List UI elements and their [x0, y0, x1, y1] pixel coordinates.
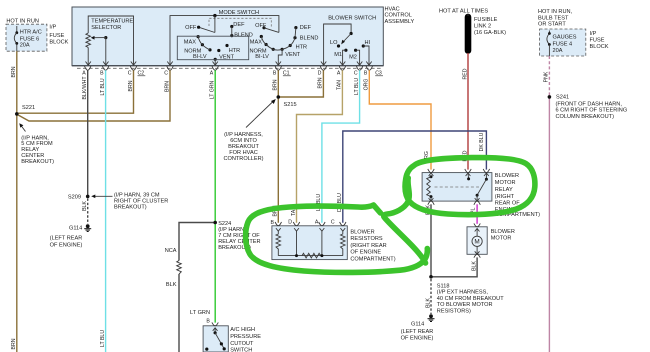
temperature selector box — [88, 16, 133, 65]
svg-text:DEF: DEF — [300, 25, 312, 31]
pin arrows C2: A B C — [86, 62, 137, 66]
mode switch pole1 node on top edge — [213, 14, 216, 17]
wire BRN C1 pin B to S215 to blower resistors pin B — [277, 70, 279, 223]
svg-text:CONTROLLER): CONTROLLER) — [223, 156, 263, 162]
svg-text:CONTROL: CONTROL — [385, 13, 412, 19]
motor label — [491, 229, 515, 242]
svg-text:(I/P EXT HARNESS,: (I/P EXT HARNESS, — [437, 290, 489, 296]
svg-text:D: D — [288, 220, 292, 226]
blower resistor R1 (left) — [276, 231, 281, 256]
connector id underlines — [138, 75, 384, 77]
svg-text:BRN: BRN — [164, 81, 170, 92]
blower resistor R2 (right) — [341, 231, 346, 256]
svg-text:(RIGHT: (RIGHT — [495, 194, 515, 200]
wire DK BLU relay to resistors pin C — [343, 131, 487, 223]
blower resistors label — [350, 229, 395, 262]
svg-text:C: C — [354, 71, 358, 77]
svg-text:BLEND: BLEND — [234, 33, 253, 39]
relay internal up arrows — [429, 173, 489, 176]
mode switch pole1 BLEND contact — [230, 34, 233, 37]
svg-text:D: D — [318, 71, 322, 77]
IP fuse block (left) dashed box — [6, 24, 47, 51]
svg-text:B: B — [271, 220, 275, 226]
relay label — [495, 173, 540, 218]
svg-text:S221: S221 — [22, 105, 35, 111]
mode switch pole1 common to pin A — [213, 58, 218, 65]
svg-text:RESISTORS: RESISTORS — [350, 236, 382, 242]
wire BLK relay to S118 — [430, 204, 432, 276]
svg-text:HOT IN RUN,: HOT IN RUN, — [538, 9, 573, 15]
svg-text:A: A — [337, 71, 341, 77]
fusible link 2 — [439, 9, 488, 54]
wire BLK blower motor to S118 — [431, 257, 477, 276]
blower resistors D and A internal stubs — [295, 231, 323, 257]
HVAC control assembly box — [72, 7, 383, 66]
svg-text:GAUGES: GAUGES — [553, 35, 577, 41]
svg-text:FUSE: FUSE — [49, 33, 64, 39]
temperature selector wiper — [91, 36, 108, 65]
svg-text:TO BLOWER MOTOR: TO BLOWER MOTOR — [437, 302, 493, 308]
svg-text:NCA: NCA — [165, 248, 177, 254]
IP fuse block (right) dashed box — [540, 29, 586, 56]
svg-text:REAR OF: REAR OF — [495, 200, 520, 206]
mode switch pole1 VENT contact — [217, 49, 220, 52]
wire PNK S241 down to bottom — [548, 97, 550, 352]
wire BLK S209 to G114 (dashed) — [87, 199, 89, 225]
svg-text:BLOWER: BLOWER — [350, 229, 374, 235]
S209 callout arrow — [91, 195, 112, 199]
svg-text:RELAY: RELAY — [495, 187, 513, 193]
HVAC label — [385, 7, 415, 25]
svg-text:S224: S224 — [218, 221, 231, 227]
svg-text:B: B — [273, 71, 277, 77]
wire PNK fuse4 to S241 (dashed) — [548, 56, 550, 97]
pin arrow C1 pin C — [167, 62, 172, 66]
relay coil — [427, 175, 434, 201]
svg-text:LT BLU: LT BLU — [354, 78, 360, 95]
mode switch pole1 HTR contact — [225, 44, 228, 47]
blower resistors pin letters — [271, 220, 335, 227]
svg-text:HI: HI — [365, 40, 371, 46]
svg-text:G114: G114 — [69, 226, 82, 232]
svg-text:CUTOUT: CUTOUT — [230, 341, 254, 347]
svg-text:I/P: I/P — [49, 25, 56, 31]
wire BLK/WHT C2 pin A to S209 — [87, 70, 89, 196]
svg-text:S118: S118 — [437, 284, 450, 290]
S215 callout text — [223, 132, 263, 162]
svg-text:I/P: I/P — [590, 31, 597, 37]
svg-text:S209: S209 — [68, 195, 81, 201]
svg-text:RESISTORS): RESISTORS) — [437, 308, 471, 314]
S215 callout arrow — [246, 99, 276, 128]
svg-text:20A: 20A — [553, 48, 563, 54]
mode switch pole1 OFF blade — [197, 16, 215, 33]
wire LT GRN C1 pin A down to A/C switch — [214, 70, 216, 322]
temperature selector potentiometer — [86, 33, 91, 48]
wire RED fusible link to relay — [467, 53, 469, 170]
temperature selector label — [91, 18, 133, 31]
mode switch pole2 OFF blade — [262, 26, 279, 32]
green annotation loop around blower motor relay — [405, 158, 535, 215]
mode switch pole2 contact arc — [260, 35, 297, 51]
svg-text:FUSE: FUSE — [590, 37, 605, 43]
svg-text:BREAKOUT): BREAKOUT) — [21, 159, 54, 165]
svg-text:HTR A/C: HTR A/C — [20, 30, 42, 36]
mode switch pole1 labels — [184, 22, 253, 60]
svg-text:6 CM RIGHT OF STEERING: 6 CM RIGHT OF STEERING — [556, 108, 628, 114]
svg-text:BRN: BRN — [11, 338, 17, 349]
mode switch pole2 DEF contact — [294, 26, 297, 38]
relay top cups — [428, 169, 490, 173]
S209 callout text — [114, 193, 168, 211]
wire BRN S215 to C3 pin D — [278, 70, 323, 97]
svg-text:VENT: VENT — [285, 52, 301, 58]
svg-text:COLUMN BREAKOUT): COLUMN BREAKOUT) — [556, 114, 615, 120]
svg-text:BLK: BLK — [471, 261, 477, 271]
blower switch HI contact to pin B — [362, 44, 372, 65]
svg-text:M1: M1 — [334, 52, 342, 58]
fuse GAUGES Fuse 4 — [547, 31, 551, 57]
wire LT BLU C2 pin B to bottom — [105, 70, 107, 352]
svg-text:FUSIBLE: FUSIBLE — [474, 17, 498, 23]
svg-text:(LEFT REAR: (LEFT REAR — [50, 236, 83, 242]
svg-text:LT GRN: LT GRN — [190, 310, 210, 316]
svg-text:OR START: OR START — [538, 22, 566, 28]
svg-text:LT GRN: LT GRN — [210, 80, 216, 99]
svg-text:BLK: BLK — [425, 298, 431, 308]
A/C switch label — [230, 327, 261, 352]
green annotation loop around blower resistors — [246, 205, 428, 272]
mode switch outer frame — [170, 16, 279, 66]
svg-text:BLOWER: BLOWER — [491, 229, 515, 235]
svg-text:B: B — [100, 71, 104, 77]
svg-text:BI-LV: BI-LV — [255, 54, 269, 60]
svg-text:FUSE 6: FUSE 6 — [20, 36, 40, 42]
mode switch pole1 DEF contact — [230, 25, 233, 36]
wire TAN C3 pin A to resistors pin D — [297, 70, 343, 223]
svg-text:A/C HIGH: A/C HIGH — [230, 327, 255, 333]
fuse HTR A/C Fuse 6 — [14, 26, 18, 51]
svg-text:C: C — [331, 220, 335, 226]
ground G114 (right) — [428, 314, 435, 321]
splice S118 — [429, 275, 433, 279]
svg-text:A: A — [315, 220, 319, 226]
svg-text:B: B — [364, 71, 368, 77]
svg-text:S241: S241 — [556, 95, 569, 101]
svg-text:PRESSURE: PRESSURE — [230, 334, 261, 340]
S118 callout text — [437, 284, 504, 315]
svg-text:TAN: TAN — [337, 80, 343, 90]
svg-text:COMPARTMENT): COMPARTMENT) — [350, 257, 395, 263]
wire BLK S118 to G114 (dashed) — [430, 279, 432, 314]
svg-text:A: A — [82, 71, 86, 77]
splice S224 — [213, 221, 217, 225]
blower switch labels — [330, 40, 371, 61]
svg-text:40 CM FROM BREAKOUT: 40 CM FROM BREAKOUT — [437, 296, 504, 302]
svg-text:S215: S215 — [284, 102, 297, 108]
svg-text:BLK: BLK — [82, 201, 88, 211]
green annotation connector stroke relay loop to resistor loop — [384, 178, 426, 263]
wire NCA branch from S224 with resistor — [177, 223, 216, 352]
blower switch blade to LO — [341, 34, 351, 45]
wire PPL relay to blower motor — [476, 204, 478, 224]
S221 callout arrow — [19, 123, 25, 131]
svg-text:BLOWER: BLOWER — [495, 173, 519, 179]
svg-text:BRN: BRN — [11, 66, 17, 77]
svg-text:BLK: BLK — [166, 282, 177, 288]
connector dashed line C1 C2 C3 — [77, 67, 383, 69]
svg-text:MOTOR: MOTOR — [491, 236, 512, 242]
svg-text:OF ENGINE): OF ENGINE) — [401, 336, 434, 342]
svg-text:OF ENGINE: OF ENGINE — [350, 250, 381, 256]
svg-text:C: C — [128, 71, 132, 77]
svg-text:A: A — [210, 71, 214, 77]
svg-text:HOT IN RUN: HOT IN RUN — [6, 18, 39, 24]
wire BRN S221 diagonal to C1 pin C — [17, 70, 170, 121]
svg-text:M2: M2 — [349, 54, 357, 60]
svg-text:BI-LV: BI-LV — [193, 54, 207, 60]
svg-text:LT BLU: LT BLU — [100, 330, 106, 347]
blower resistors bottom rail — [278, 255, 343, 257]
svg-text:BLEND: BLEND — [300, 36, 319, 42]
A/C switch internal — [205, 328, 226, 351]
svg-text:B: B — [206, 319, 210, 325]
splice S215 — [277, 95, 281, 99]
relay blade contact — [475, 173, 488, 202]
svg-text:BLOCK: BLOCK — [49, 39, 68, 45]
svg-text:BLOCK: BLOCK — [590, 44, 609, 50]
connector cups below HVAC box — [85, 66, 373, 70]
svg-text:DEF: DEF — [233, 22, 245, 28]
svg-text:SELECTOR: SELECTOR — [91, 25, 121, 31]
svg-text:BRN: BRN — [318, 77, 324, 88]
mode switch small box MAX NORM BI-LV — [177, 36, 248, 60]
svg-text:M: M — [474, 239, 479, 246]
motor bottom cup — [474, 254, 480, 257]
mode switch pole1 MAX-NORM-BI/LV strip — [197, 35, 212, 52]
blower motor relay box — [422, 173, 492, 202]
blower resistor R3 (horizontal) — [302, 253, 321, 258]
svg-text:BLOWER SWITCH: BLOWER SWITCH — [328, 16, 376, 22]
mode switch pole2 drop to pin B — [276, 49, 283, 65]
wire labels (rotated) — [11, 66, 550, 349]
svg-text:(FRONT OF DASH HARN,: (FRONT OF DASH HARN, — [556, 101, 623, 107]
svg-text:MODE SWITCH: MODE SWITCH — [219, 10, 259, 16]
svg-text:TEMPERATURE: TEMPERATURE — [91, 18, 133, 24]
svg-text:20A: 20A — [20, 43, 30, 49]
wire ORG C3 pin B to relay — [369, 70, 431, 169]
svg-text:ASSEMBLY: ASSEMBLY — [385, 19, 415, 25]
relay dashed actuation line — [435, 186, 480, 188]
blower switch feed bracket from pin D — [321, 24, 353, 65]
blower motor box — [467, 227, 487, 255]
svg-text:LT BLU: LT BLU — [100, 78, 106, 95]
relay NO contact (RED pin) — [467, 173, 470, 181]
svg-text:MOTOR: MOTOR — [495, 180, 516, 186]
svg-text:(16 GA-BLK): (16 GA-BLK) — [474, 30, 506, 36]
splice S221 — [15, 112, 19, 116]
svg-text:G114: G114 — [411, 322, 424, 328]
wire BRN fuse6 to S221 — [16, 51, 18, 114]
svg-text:BRN: BRN — [128, 80, 134, 91]
svg-text:MAX: MAX — [184, 40, 196, 46]
svg-text:OFF: OFF — [185, 25, 197, 31]
svg-text:VENT: VENT — [219, 54, 235, 60]
svg-text:ORG: ORG — [364, 79, 370, 91]
svg-text:SWITCH: SWITCH — [230, 348, 252, 352]
svg-text:LO: LO — [330, 40, 338, 46]
svg-text:MAX: MAX — [250, 40, 262, 46]
pin letters row — [82, 71, 382, 77]
mode switch pole2 labels — [250, 23, 319, 60]
wire BRN S221 down to bottom — [16, 114, 18, 352]
svg-text:RED: RED — [462, 68, 468, 79]
svg-text:BULB TEST: BULB TEST — [538, 15, 569, 21]
wire BRN S221 to C2 pin C — [17, 70, 134, 113]
S241 callout text — [556, 95, 628, 120]
svg-text:BREAKOUT): BREAKOUT) — [114, 204, 147, 210]
svg-text:PNK: PNK — [544, 71, 550, 82]
svg-text:BLK/WHT: BLK/WHT — [82, 76, 88, 100]
blower switch M1 contact to pin A — [340, 49, 348, 66]
svg-text:LINK 2: LINK 2 — [474, 23, 491, 29]
blower resistors box — [272, 226, 347, 260]
svg-text:C: C — [164, 71, 168, 77]
motor top cup — [474, 223, 480, 226]
blower resistors pin arrows inside — [276, 228, 345, 231]
A/C high pressure cutout switch box — [203, 326, 228, 352]
blower resistors cups — [275, 222, 346, 226]
S224 callout text — [218, 221, 260, 251]
motor internal — [472, 229, 482, 255]
blower switch LO contact — [337, 44, 340, 47]
svg-text:HTR: HTR — [229, 48, 241, 54]
mode switch gang dashed link — [209, 18, 271, 27]
svg-text:HTR: HTR — [296, 45, 308, 51]
svg-text:HOT AT ALL TIMES: HOT AT ALL TIMES — [439, 9, 488, 15]
S221 callout text — [21, 135, 54, 165]
A/C switch cup — [212, 322, 218, 325]
relay bottom cups — [428, 201, 481, 205]
blower switch M2 contact to pin C — [354, 49, 362, 66]
svg-text:OFF: OFF — [255, 23, 267, 29]
svg-text:FUSE 4: FUSE 4 — [553, 41, 573, 47]
splice S209 — [86, 195, 90, 199]
svg-text:DK BLU: DK BLU — [479, 132, 485, 151]
wire LT BLU C3 pin C to resistors pin A — [322, 70, 360, 223]
splice S241 — [548, 95, 552, 99]
horizontal labels NCA BLK LT GRN — [165, 248, 210, 316]
svg-text:OF ENGINE): OF ENGINE) — [50, 242, 83, 248]
svg-text:BRN: BRN — [273, 79, 279, 90]
svg-text:(LEFT REAR: (LEFT REAR — [401, 329, 434, 335]
svg-text:HVAC: HVAC — [385, 7, 400, 13]
svg-text:(RIGHT REAR: (RIGHT REAR — [350, 243, 386, 249]
ground G114 (left) — [84, 224, 91, 231]
